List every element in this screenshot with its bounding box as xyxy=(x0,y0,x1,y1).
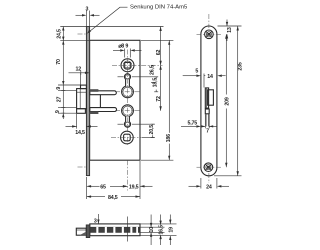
dim 14,5 extension from latch front xyxy=(76,114,78,129)
centerline extension through side view xyxy=(127,217,129,242)
svg-text:9: 9 xyxy=(55,110,61,113)
dim 27 xyxy=(62,91,64,108)
latch bevel shading in cutout xyxy=(206,88,207,107)
svg-text:⌀8 9: ⌀8 9 xyxy=(118,44,128,50)
vertical centerline through holes xyxy=(127,50,129,147)
svg-text:10: 10 xyxy=(149,227,155,233)
stulp vertical centerline xyxy=(208,14,210,28)
extension line y90.6 xyxy=(58,90,76,92)
side case body xyxy=(90,224,140,236)
svg-text:27: 27 xyxy=(56,97,62,103)
svg-text:209: 209 xyxy=(225,97,231,105)
MAIN_VIEW xyxy=(77,11,163,191)
svg-text:7: 7 xyxy=(206,129,209,135)
latch bottom step xyxy=(77,109,86,114)
svg-text:70: 70 xyxy=(56,59,62,65)
svg-text:65: 65 xyxy=(100,185,106,191)
case right edge extension down xyxy=(139,161,141,199)
latch junction block upper xyxy=(90,89,99,92)
extension line y113.2 latch bottom xyxy=(58,112,76,114)
svg-text:26,5: 26,5 xyxy=(149,65,155,75)
side latch bolt tip xyxy=(76,228,86,235)
screw centerline bottom left xyxy=(78,166,87,168)
stulp faceplate outline xyxy=(201,26,217,176)
svg-text:62: 62 xyxy=(156,50,162,56)
dim 84,5 xyxy=(87,196,105,198)
cylinder hole upper neck xyxy=(126,79,130,86)
cylinder upper horizontal centerline xyxy=(115,91,141,93)
case top extension to 186 xyxy=(141,39,173,41)
follower horizontal centerline xyxy=(112,64,163,66)
case bottom extension to 186 xyxy=(141,159,173,161)
ext for 5/14 xyxy=(203,78,205,88)
follower square hole xyxy=(125,63,131,69)
dim 24,5 chain xyxy=(62,27,64,41)
TOP_NOTE xyxy=(87,4,188,33)
dim 209 chain xyxy=(225,34,227,94)
dim 24 bottom xyxy=(200,178,202,189)
latch body in cutout xyxy=(208,90,214,105)
dim 9 upper xyxy=(62,85,64,91)
dim 235 chain xyxy=(237,26,239,176)
follower outer circle xyxy=(121,59,134,72)
dim 14,5 line and arrows xyxy=(66,125,77,127)
STULP_VIEW xyxy=(181,14,243,190)
follower inner circle xyxy=(123,61,132,70)
countersink note leader xyxy=(87,7,127,33)
latch fork upper prong xyxy=(90,91,117,95)
svg-text:14: 14 xyxy=(207,74,213,80)
svg-text:24,5: 24,5 xyxy=(57,29,63,39)
extension line case top left xyxy=(60,40,89,42)
latch cutout narrow strip xyxy=(205,88,208,108)
dim 5 and 14 line xyxy=(183,75,197,77)
faceplate extension lines above xyxy=(85,11,87,27)
SIDE_VIEW xyxy=(76,214,176,245)
dim 20,5 mini chain xyxy=(152,123,154,126)
svg-text:13: 13 xyxy=(227,27,233,33)
dim 13 xyxy=(226,20,228,27)
svg-text:12: 12 xyxy=(76,66,82,72)
svg-text:5: 5 xyxy=(195,68,198,74)
bottom screw hole xyxy=(197,163,222,172)
extension line y107.4 xyxy=(58,106,76,108)
vertical centerline below case xyxy=(127,160,129,190)
svg-text:16,5: 16,5 xyxy=(159,225,165,235)
svg-text:Senkung DIN 74-Am5: Senkung DIN 74-Am5 xyxy=(130,4,188,10)
dim 5,75 and 7 line xyxy=(181,125,196,127)
svg-text:235: 235 xyxy=(237,62,243,70)
DIMS_RIGHT xyxy=(113,27,173,161)
dim 19,5 xyxy=(121,185,128,187)
latch fork web edge xyxy=(99,95,101,108)
dim 65 xyxy=(87,185,100,187)
svg-text:3: 3 xyxy=(86,7,89,13)
svg-text:19: 19 xyxy=(168,227,174,233)
latch fork lower prong xyxy=(90,108,117,112)
dim 18,5 mini chain xyxy=(155,77,157,79)
cylinder hole lower small circle xyxy=(124,121,130,127)
top screw hole xyxy=(197,30,222,39)
DIMS_LEFT xyxy=(55,7,163,136)
svg-text:19,5: 19,5 xyxy=(129,185,139,191)
latch tip bevel xyxy=(80,232,87,236)
svg-text:72: 72 xyxy=(156,96,162,102)
bottom rosette square hole xyxy=(124,134,131,141)
lock case body xyxy=(90,40,140,160)
dim 72 chain xyxy=(160,65,162,110)
screw centerline top left xyxy=(78,33,87,35)
latch top step xyxy=(81,85,87,89)
DIMS_BOTTOM xyxy=(87,161,153,201)
dim square lines and arrows xyxy=(113,49,120,51)
svg-text:3: 3 xyxy=(94,219,97,225)
dim 186 chain xyxy=(168,40,170,133)
dim 10 chain xyxy=(150,215,152,228)
svg-text:14,5: 14,5 xyxy=(75,130,85,136)
dim 3 leader on case top xyxy=(97,214,99,224)
cylinder hole upper small circle xyxy=(124,74,130,80)
faceplate edge strip (section) xyxy=(86,27,89,176)
faceplate top extension line xyxy=(60,26,86,28)
ext lines for 18,5 xyxy=(132,76,158,78)
dim 70 chain xyxy=(62,41,64,85)
svg-text:9: 9 xyxy=(56,87,62,90)
side case inner lines xyxy=(90,226,140,228)
svg-text:186: 186 xyxy=(166,134,172,142)
dim 3 lines and arrows xyxy=(76,14,83,16)
latch junction block lower xyxy=(90,111,99,114)
ext line plate top right xyxy=(218,25,242,27)
dim 9 lower xyxy=(62,107,64,113)
faceplate front extension down xyxy=(86,177,88,199)
dim 62 chain xyxy=(160,27,162,66)
side faceplate bar xyxy=(86,225,90,238)
lower slot lines xyxy=(205,114,207,127)
lower cutout block xyxy=(205,109,209,114)
rosette horizontal centerline xyxy=(111,137,141,139)
ext line plate bottom right xyxy=(214,175,242,177)
right extension lines xyxy=(140,223,177,225)
ext line from latch step to dim 12 xyxy=(80,73,82,85)
svg-text:20,5: 20,5 xyxy=(149,125,155,135)
dim 16,5 chain xyxy=(160,215,162,225)
hidden mechanism band xyxy=(90,227,140,232)
svg-text:5,75: 5,75 xyxy=(188,121,198,127)
dim 19 chain xyxy=(169,215,171,224)
latch bolt head xyxy=(77,89,87,109)
cylinder hole lower big circle xyxy=(122,105,134,117)
extension line y85 latch top xyxy=(58,84,81,86)
dim 12 line xyxy=(69,72,90,74)
cylinder hole lower neck xyxy=(126,116,130,121)
cylinder hole upper big circle xyxy=(122,86,134,98)
svg-text:84,5: 84,5 xyxy=(108,195,118,201)
svg-text:24: 24 xyxy=(206,184,212,190)
cylinder lower horizontal centerline xyxy=(115,110,141,112)
bottom rosette outer circle xyxy=(121,131,134,144)
